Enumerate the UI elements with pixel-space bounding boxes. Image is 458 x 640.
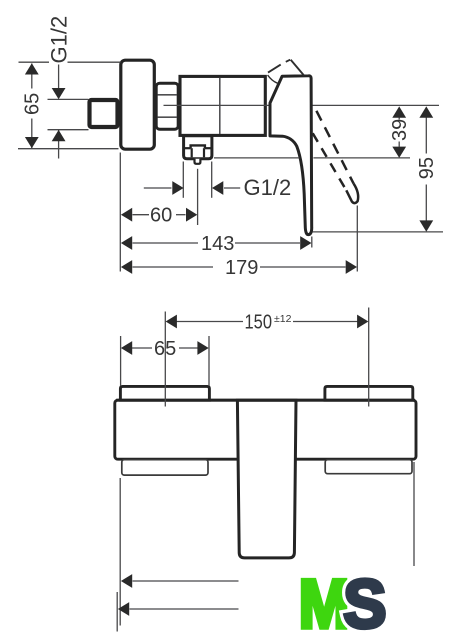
svg-text:65: 65 (22, 93, 44, 115)
65 ext lines (120, 336, 122, 386)
60 left arrow (points left) (121, 208, 132, 222)
65 top (up) (25, 63, 39, 74)
bottom left ext lines (119, 478, 121, 626)
39 bottom (down) (392, 147, 406, 158)
G1/2 down arrow (52, 88, 66, 99)
handle rotated position marks (top) (268, 60, 304, 76)
thin lines bottom view (117, 308, 414, 632)
svg-text:150: 150 (245, 312, 273, 334)
svg-text:143: 143 (201, 233, 234, 255)
right flange lower part (325, 460, 412, 474)
handle (grip + lever) (270, 76, 312, 235)
65 left (121, 341, 132, 355)
39 dim line (398, 118, 400, 120)
dashed lever (alternate position) (313, 111, 358, 203)
center line left flange (164, 312, 166, 407)
texts side view (22, 16, 438, 279)
MS logo (299, 565, 387, 640)
square top/bottom extension lines (48, 98, 89, 100)
texts bottom view (154, 312, 292, 360)
left long extension line (119, 153, 121, 272)
150 dim line (177, 321, 244, 323)
179 right arrow (346, 260, 357, 274)
65 right (197, 341, 208, 355)
svg-text:179: 179 (225, 257, 258, 279)
95 dim line (425, 118, 427, 154)
65 dim line (132, 347, 152, 349)
179 extension at dashed tip (356, 206, 358, 272)
wall supply stub (G1/2 square) (90, 100, 118, 127)
60 dim lines (133, 214, 150, 216)
top extension line (escutcheon top) (19, 61, 50, 63)
right flange cap (325, 386, 413, 400)
escutcheon plate (121, 60, 155, 149)
svg-text:S: S (343, 565, 386, 640)
bottom extension line (escutcheon bottom) (18, 148, 119, 150)
150 left (points left) (166, 315, 177, 329)
G1/2 outlet left arrow (points right) (172, 181, 183, 195)
G1/2 up arrow (52, 130, 66, 141)
G1/2 outlet right arrow (points left) (212, 181, 223, 195)
arrowheads side view (25, 63, 433, 274)
svg-text:M: M (299, 565, 350, 640)
svg-text:G1/2: G1/2 (46, 16, 71, 64)
39 top (up) (392, 106, 406, 117)
65 dim line segments (31, 64, 33, 89)
depth arrow 2 (118, 602, 129, 616)
G1/2 leader (58, 65, 60, 89)
143 extension at lever tip (311, 237, 313, 248)
handle block (237, 400, 296, 558)
143 right arrow (300, 236, 311, 250)
60 right arrow (points right) (186, 208, 197, 222)
95 bottom (down) (419, 220, 433, 231)
bottom extension (lever tip) (313, 231, 444, 233)
center line right flange (368, 308, 370, 407)
hex union nut (156, 83, 178, 129)
body top edge redraw (116, 399, 415, 402)
150 right (points right) (357, 315, 368, 329)
95 top (up) (419, 106, 433, 117)
depth arrow 1 (121, 574, 132, 588)
pipe axis line (164, 104, 440, 106)
179 left arrow (121, 260, 132, 274)
svg-text:G1/2: G1/2 (244, 175, 292, 200)
svg-text:95: 95 (416, 157, 438, 179)
svg-text:±12: ±12 (274, 313, 292, 325)
svg-text:65: 65 (154, 338, 176, 360)
arrowheads bottom view (118, 315, 369, 616)
179 dim line (133, 266, 214, 268)
shower outlet (hose connector) (184, 136, 212, 164)
143 left arrow (121, 236, 132, 250)
left flange lower part (122, 460, 208, 475)
143 dim line (133, 242, 199, 244)
left flange cap (120, 386, 209, 400)
depth arrows lines (133, 580, 239, 582)
svg-text:60: 60 (150, 205, 172, 227)
svg-text:39: 39 (389, 119, 411, 141)
body bar (115, 400, 416, 459)
right ext line (413, 462, 415, 566)
mixer body (180, 76, 265, 135)
outlet extension lines (182, 162, 184, 198)
65 bottom (down) (25, 137, 39, 148)
G1/2 lower dim lines (144, 187, 172, 189)
outlet-bottom extension to right (214, 157, 299, 159)
